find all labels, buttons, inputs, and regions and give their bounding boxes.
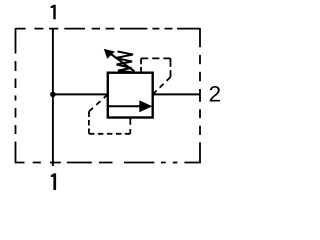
envelope (dashed cartridge boundary): [16, 28, 201, 163]
wire: node 1 to valve inlet: [53, 93, 108, 95]
adjustment arrow: [104, 49, 135, 72]
pilot line (lower, to port 1): [89, 94, 130, 133]
spring: [116, 52, 135, 73]
flow path arrow inside valve: [109, 100, 153, 112]
port 1 label (top): [51, 5, 56, 19]
port 1 label (bottom): [51, 173, 56, 190]
junction dot: [50, 92, 56, 98]
wire: port 1 vertical line: [52, 29, 54, 166]
valve body V1 (relief valve envelope): [108, 73, 153, 118]
svg-text:2: 2: [209, 82, 222, 107]
pilot line (upper, to port 2): [141, 58, 171, 94]
wire: valve outlet to port 2: [153, 93, 200, 95]
